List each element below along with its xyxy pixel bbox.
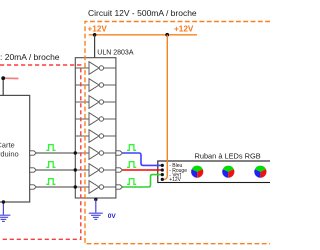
Arduino output pin 1 bbox=[30, 151, 37, 155]
LED 1 (RGB) bbox=[191, 166, 203, 178]
svg-text:+12V: +12V bbox=[88, 25, 108, 34]
wire: Arduino 5V pin up to node bbox=[2, 78, 4, 95]
inverter gate 5 bbox=[75, 130, 116, 143]
inverter gate 8 bbox=[75, 181, 116, 194]
strip pin Vert bbox=[161, 173, 164, 176]
op-amp chip ULN2803A body bbox=[75, 58, 116, 198]
pulse icon (Arduino out 2) bbox=[46, 162, 55, 168]
node: ULN input 8 junction bbox=[74, 185, 77, 188]
strip pin Bleu bbox=[161, 164, 164, 167]
wire: blue (ULN out6 to strip Bleu) bbox=[123, 153, 163, 165]
node: Arduino 5V bbox=[1, 76, 5, 80]
pulse icon (Arduino out 3) bbox=[46, 179, 55, 185]
svg-text:+12V: +12V bbox=[169, 177, 181, 183]
Arduino board (Carte Arduino) bbox=[0, 95, 30, 202]
Arduino output pin 3 bbox=[30, 185, 37, 189]
wire: green (ULN out8 to strip Vert) bbox=[123, 175, 163, 187]
Arduino output pin 2 bbox=[30, 168, 37, 172]
node: +12V rail to ULN COM junction bbox=[93, 33, 97, 37]
wire: +12V rail down to ULN top pin bbox=[94, 35, 96, 58]
node: ULN input 7 junction bbox=[74, 168, 77, 171]
ULN output pin 8 bbox=[116, 185, 123, 189]
wire: 5V stub (salmon) bbox=[3, 77, 18, 79]
inverter gate 2 bbox=[75, 79, 116, 92]
ULN output pin 6 bbox=[116, 151, 123, 155]
svg-text:Arduino: Arduino bbox=[0, 149, 19, 158]
pulse icon (ULN out 7) bbox=[127, 162, 136, 168]
wire: Arduino GND down bbox=[2, 202, 4, 215]
wire: Arduino pin1 to ULN input 6 bbox=[36, 152, 75, 154]
pulse icon (ULN out 8) bbox=[127, 179, 136, 185]
inverter gate 6 bbox=[75, 147, 116, 160]
svg-text:0V: 0V bbox=[108, 213, 117, 220]
svg-text:: 20mA / broche: : 20mA / broche bbox=[0, 52, 60, 62]
pulse icon (Arduino out 1) bbox=[46, 145, 55, 151]
wire: red (ULN out7 to strip Rouge) bbox=[123, 169, 163, 171]
inverter gate 1 bbox=[75, 62, 116, 75]
inverter gate 4 bbox=[75, 113, 116, 126]
svg-text:Ruban à LEDs RGB: Ruban à LEDs RGB bbox=[195, 151, 261, 160]
LED 2 (RGB) bbox=[222, 166, 234, 178]
svg-text:Circuit 12V - 500mA / broche: Circuit 12V - 500mA / broche bbox=[88, 8, 197, 18]
ground (ULN) bbox=[89, 213, 103, 219]
inverter gate 7 bbox=[75, 164, 116, 177]
ground (Arduino) bbox=[0, 215, 10, 221]
LED 3 (RGB) bbox=[254, 166, 266, 178]
node: +12V rail to LED strip junction bbox=[165, 33, 169, 37]
svg-text:Carte: Carte bbox=[0, 140, 15, 149]
wire: Arduino pin2 to ULN input 7 bbox=[36, 169, 75, 171]
strip pin +12V bbox=[161, 178, 164, 181]
inverter gate 3 bbox=[75, 96, 116, 109]
node: ULN input 6 junction bbox=[74, 151, 77, 154]
boundary: red dashed 5V domain box bbox=[0, 65, 81, 239]
strip pin Rouge bbox=[161, 168, 164, 171]
strip pin labels bbox=[169, 163, 187, 183]
wire: Arduino pin3 to ULN input 8 bbox=[36, 186, 75, 188]
wire: ULN GND down bbox=[95, 200, 97, 213]
node: Arduino GND pin bbox=[2, 200, 5, 203]
wire: +12V down to LED strip pin (orange) bbox=[162, 35, 167, 180]
svg-text:+12V: +12V bbox=[174, 25, 194, 34]
wire: +12V rail bbox=[89, 34, 197, 36]
pulse icon (ULN out 6) bbox=[127, 145, 136, 151]
node: ULN GND pin bbox=[94, 198, 97, 201]
boundary: orange dashed 12V domain box bbox=[85, 22, 270, 244]
svg-text:ULN 2803A: ULN 2803A bbox=[97, 50, 134, 57]
ULN output pin 7 bbox=[116, 168, 123, 172]
